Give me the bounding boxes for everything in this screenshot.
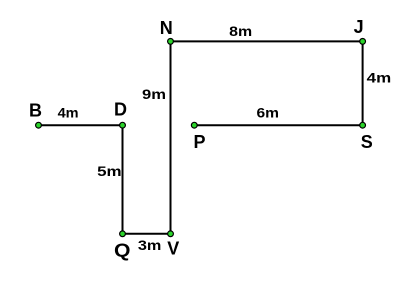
svg-text:D: D	[114, 100, 127, 120]
svg-text:Q: Q	[114, 241, 131, 261]
svg-text:6m: 6m	[257, 104, 280, 120]
svg-text:9m: 9m	[142, 86, 166, 102]
svg-text:J: J	[354, 17, 364, 37]
svg-text:5m: 5m	[97, 163, 122, 179]
svg-text:P: P	[194, 132, 206, 152]
svg-text:4m: 4m	[367, 69, 392, 85]
svg-text:4m: 4m	[58, 104, 79, 120]
svg-text:8m: 8m	[229, 23, 252, 39]
svg-text:B: B	[29, 101, 42, 121]
svg-text:V: V	[167, 239, 179, 259]
svg-text:N: N	[160, 18, 173, 38]
svg-text:3m: 3m	[138, 237, 162, 253]
svg-text:S: S	[361, 132, 373, 152]
